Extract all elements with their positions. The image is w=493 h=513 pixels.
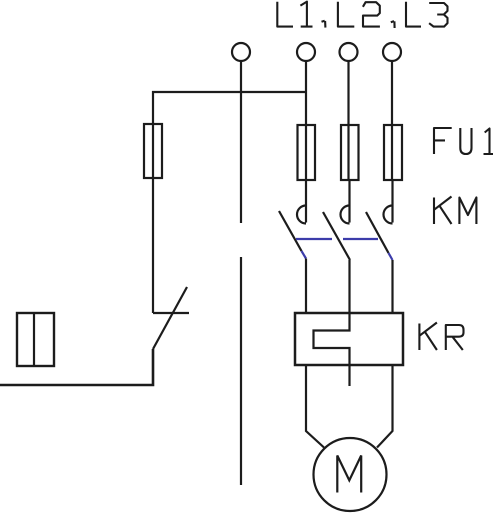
label FU1 bbox=[434, 128, 493, 154]
wire: left branch upper bbox=[152, 91, 154, 179]
net label L1,L2,L3 bbox=[277, 2, 447, 28]
label KR bbox=[419, 323, 463, 351]
thermal relay KR NC contact: fixed tick bbox=[153, 312, 189, 314]
thermal relay KR heater hook (middle phase) bbox=[314, 260, 350, 386]
fuse FU1 phase b bbox=[341, 125, 359, 180]
mechanical linkage segment 1 (blue) bbox=[296, 238, 332, 240]
wire: L2 drop to fuse bbox=[347, 61, 349, 181]
thermal relay KR element box bbox=[295, 313, 403, 365]
fuse FU1 phase c bbox=[384, 125, 402, 180]
wire: fuse c to contact bbox=[391, 180, 393, 223]
wire: L1 drop to fuse bbox=[305, 61, 307, 181]
wire: fuse b to contact bbox=[348, 180, 350, 223]
contactor KM main contact 1: blade tip (blue) bbox=[302, 251, 307, 259]
contactor KM main contact 1: blade bbox=[279, 211, 302, 251]
contactor KM main contact 3: blade tip (blue) bbox=[389, 253, 393, 260]
fuse FU (left) bbox=[144, 124, 162, 178]
wire: top bus bbox=[152, 91, 307, 93]
terminal L1 bbox=[297, 43, 315, 61]
contactor KM main contact 1: fixed arc bbox=[297, 206, 306, 224]
motor letter M bbox=[337, 456, 361, 493]
wire: left branch lower to edge bbox=[0, 349, 153, 385]
motor M circle bbox=[314, 438, 387, 511]
contactor KM main contact 2: blade bbox=[323, 212, 350, 260]
fuse FU1 phase a bbox=[298, 125, 316, 180]
wire: KR box to motor (left) bbox=[306, 365, 324, 448]
terminal L2 bbox=[340, 43, 358, 61]
terminal 1 bbox=[232, 43, 250, 61]
contactor KM main contact 3: fixed arc bbox=[384, 206, 393, 224]
contactor KM main contact 2: fixed arc bbox=[341, 206, 350, 224]
wire: contact 3 to KR box bbox=[391, 260, 393, 314]
wire: fuse a to contact bbox=[305, 180, 307, 223]
wire: isolator lower segment bbox=[240, 257, 242, 485]
wire: contact 1 to KR box bbox=[305, 259, 307, 315]
label KM bbox=[434, 197, 476, 225]
wire: isolator upper segment bbox=[240, 61, 242, 223]
contactor KM main contact 3: blade bbox=[366, 212, 389, 253]
thermal relay KR NC contact: blade bbox=[153, 287, 187, 349]
wire: L3 drop to fuse bbox=[391, 61, 393, 181]
terminal L3 bbox=[383, 43, 401, 61]
wire: left branch middle bbox=[152, 178, 154, 313]
mechanical linkage segment 2 (blue) bbox=[343, 238, 378, 240]
wire: KR box to motor (right) bbox=[377, 365, 393, 448]
component box (two-cell, left) bbox=[17, 313, 54, 366]
